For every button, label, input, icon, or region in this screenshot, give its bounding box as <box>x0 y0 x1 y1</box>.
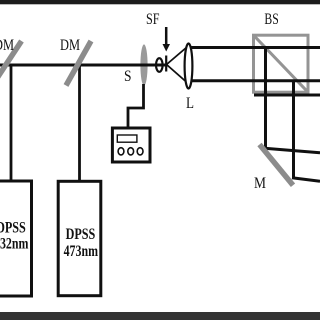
svg-text:DPSS: DPSS <box>0 219 26 236</box>
svg-text:S: S <box>124 68 132 85</box>
svg-text:L: L <box>186 95 194 112</box>
svg-text:M: M <box>254 175 266 192</box>
svg-text:BS: BS <box>264 11 278 28</box>
svg-text:SF: SF <box>146 11 160 28</box>
svg-text:532nm: 532nm <box>0 236 29 253</box>
svg-text:DPSS: DPSS <box>66 226 96 243</box>
svg-text:473nm: 473nm <box>64 243 99 260</box>
svg-text:DM: DM <box>0 37 14 54</box>
svg-text:DM: DM <box>60 37 80 54</box>
